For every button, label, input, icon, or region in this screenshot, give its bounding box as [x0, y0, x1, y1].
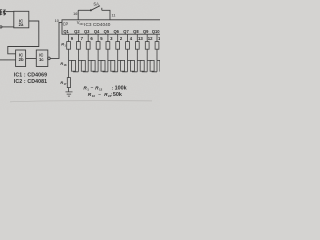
wire IC1c output to CP pin 10 — [50, 22, 62, 58]
series resistor body 4 — [101, 60, 105, 71]
pin name labels Q1-Q10 — [63, 29, 160, 34]
gate IC2a box — [14, 11, 29, 28]
svg-text:–: – — [91, 86, 94, 91]
series resistor body 7 — [130, 60, 134, 71]
pin stubs Q1-Q10 — [69, 34, 157, 41]
svg-text:Q6: Q6 — [113, 29, 119, 34]
faint scan crease line at bottom — [10, 101, 152, 102]
svg-text:12: 12 — [99, 87, 103, 91]
series resistor chain element 4: jog wires — [98, 60, 108, 71]
IC3 CD4040 box — [62, 20, 162, 34]
svg-text:DD: DD — [80, 22, 84, 26]
wire IC2a output loop to IC2b — [8, 21, 39, 54]
note R1-R12 100k — [83, 85, 126, 91]
resistor R8 — [135, 42, 139, 50]
svg-text:50k: 50k — [113, 92, 122, 98]
svg-text:Q5: Q5 — [104, 29, 110, 34]
paper background — [0, 0, 160, 110]
wire input to IC2a — [6, 11, 14, 13]
input terminal circle (second IC2a input, cropped at left) — [0, 26, 2, 28]
series resistor chain element 2: jog wires — [78, 60, 88, 71]
resistor R9 — [145, 42, 149, 50]
series resistor chain element 10: jog wires (cropped) — [157, 59, 162, 61]
resistor R7 — [126, 42, 130, 50]
switch SA — [90, 6, 102, 11]
series resistor chain element 5: jog wires — [108, 60, 118, 71]
labels — [14, 1, 164, 98]
resistor R4 — [96, 42, 100, 50]
svg-text:Q2: Q2 — [74, 29, 80, 34]
wire to ground — [68, 88, 70, 92]
svg-text:2a: 2a — [19, 22, 24, 27]
termination resistor R17 — [67, 78, 70, 88]
series resistor chain element 1: jog wires — [69, 60, 79, 71]
ladder network — [66, 34, 164, 96]
inverter bubble IC1c — [48, 57, 51, 60]
series resistor body 5 — [111, 60, 115, 71]
svg-text:CP: CP — [63, 22, 69, 27]
wire second IC2a input — [2, 26, 14, 28]
series resistor chain element 6: jog wires — [118, 60, 128, 71]
svg-text:16: 16 — [73, 11, 77, 16]
resistor R3 — [86, 42, 90, 50]
pin number labels — [71, 36, 164, 41]
series resistor body 9 — [150, 60, 154, 71]
pin 16 VDD wire — [77, 10, 79, 19]
svg-text:Q1: Q1 — [63, 29, 69, 34]
svg-text:Q10: Q10 — [152, 29, 160, 34]
series resistor chain element 3: jog wires — [88, 60, 98, 71]
gate IC2b box — [16, 50, 26, 67]
series resistor body 8 — [140, 60, 144, 71]
series resistor chain element 7: jog wires — [128, 60, 138, 71]
svg-text:–: – — [98, 93, 101, 98]
svg-text:Q3: Q3 — [84, 29, 90, 34]
series resistor body 10 (cropped) — [160, 60, 164, 71]
series resistor chain element 8: jog wires — [137, 60, 147, 71]
svg-text:Q7: Q7 — [123, 29, 129, 34]
note R13-R24 50k — [88, 92, 122, 98]
wire switch to pin 11 — [102, 10, 110, 19]
resistor R6 — [116, 42, 120, 50]
svg-text:2b: 2b — [19, 57, 24, 62]
top supply wire to switch — [78, 9, 90, 11]
svg-text:14: 14 — [158, 36, 160, 41]
scan grain overlay — [0, 0, 160, 110]
resistor R2 — [77, 42, 81, 50]
ground — [66, 92, 73, 96]
svg-text:IC2 : CD4081: IC2 : CD4081 — [14, 79, 47, 85]
svg-text:Q8: Q8 — [133, 29, 139, 34]
resistor R5 — [106, 42, 110, 50]
ladder node column wires — [69, 49, 157, 77]
svg-text:13: 13 — [138, 36, 143, 41]
series resistor chain element 9: jog wires — [147, 60, 157, 71]
svg-text:11: 11 — [111, 12, 115, 17]
svg-text:12: 12 — [148, 36, 153, 41]
series resistor body 3 — [91, 60, 95, 71]
svg-text:Q4: Q4 — [94, 29, 100, 34]
svg-text:1c: 1c — [39, 57, 44, 62]
wire second input from left edge — [0, 59, 16, 61]
resistor R10 — [155, 42, 159, 50]
svg-text:Q9: Q9 — [143, 29, 149, 34]
svg-text:IC1 : CD4069: IC1 : CD4069 — [14, 73, 47, 79]
resistor R1 — [67, 42, 71, 50]
input signal label (CJK, partially cropped) — [0, 10, 6, 15]
wire IC2b to IC1c — [26, 58, 37, 60]
series resistor body 2 — [81, 60, 85, 71]
svg-text:13: 13 — [92, 94, 96, 98]
svg-text:100k: 100k — [115, 85, 127, 91]
gate IC1c box — [36, 50, 48, 67]
series resistor body 6 — [121, 60, 125, 71]
svg-text:IC3 CD4040: IC3 CD4040 — [84, 22, 111, 27]
svg-text:SA: SA — [93, 1, 99, 6]
series resistor body 1 — [72, 60, 76, 71]
